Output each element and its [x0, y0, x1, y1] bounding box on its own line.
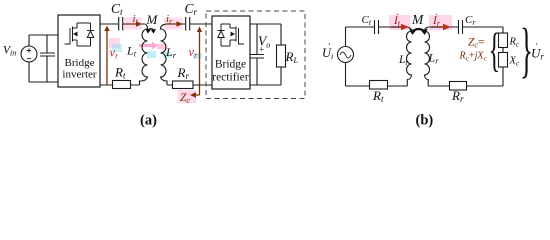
svg-text:Rc+jXc: Rc+jXc: [459, 51, 488, 63]
svg-text:.: .: [536, 37, 539, 48]
svg-text:Bridge: Bridge: [215, 59, 246, 71]
svg-text:Bridge: Bridge: [65, 57, 95, 69]
svg-text:{: {: [489, 24, 501, 77]
svg-text:.: .: [328, 37, 331, 48]
svg-text:(a): (a): [140, 113, 157, 129]
svg-text:+: +: [259, 45, 264, 55]
svg-text:inverter: inverter: [62, 69, 97, 81]
svg-text:M: M: [146, 12, 159, 27]
svg-text:(b): (b): [416, 113, 434, 129]
svg-text:.: .: [396, 7, 399, 18]
svg-text:}: }: [520, 18, 533, 85]
svg-text:rectifier: rectifier: [212, 72, 249, 84]
svg-text:M: M: [411, 12, 424, 27]
svg-text:.: .: [436, 7, 439, 18]
